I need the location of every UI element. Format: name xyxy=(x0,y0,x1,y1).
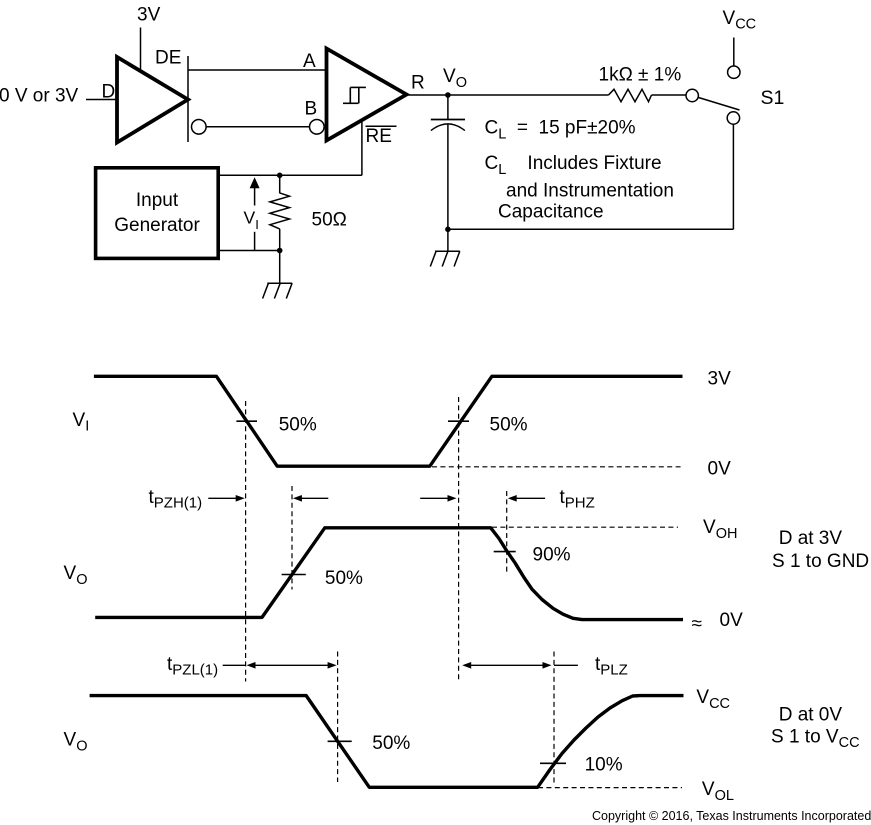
wire bottom rail xyxy=(448,228,734,230)
tick VO 90% xyxy=(494,551,516,553)
svg-text:≈: ≈ xyxy=(692,614,702,635)
wire resistor 50 bottom xyxy=(279,229,281,251)
dashed vertical D2 xyxy=(291,486,293,590)
label 1kohm xyxy=(599,65,682,86)
svg-text:S 1 to GND: S 1 to GND xyxy=(772,551,869,572)
tick VO bottom 50% xyxy=(328,740,352,742)
svg-text:50%: 50% xyxy=(325,568,363,589)
leader line tPZL xyxy=(223,664,246,666)
svg-text:90%: 90% xyxy=(533,545,571,566)
label VCC level xyxy=(696,687,730,712)
label D xyxy=(102,82,116,103)
label Input xyxy=(136,190,179,211)
label 3V level xyxy=(708,369,732,390)
VI arrow xyxy=(250,177,260,188)
wire R output rail xyxy=(407,94,609,96)
label RE overline xyxy=(366,125,397,127)
node RE dot xyxy=(277,173,283,179)
ground left xyxy=(263,283,293,298)
svg-text:Input: Input xyxy=(136,190,179,211)
label and Instrumentation xyxy=(506,181,674,202)
label S1 xyxy=(761,87,785,109)
svg-text:S1: S1 xyxy=(761,87,785,109)
label 0 V or 3V xyxy=(0,86,79,107)
driver inverting bubble xyxy=(192,120,207,135)
svg-text:1kΩ ± 1%: 1kΩ ± 1% xyxy=(599,65,682,86)
driver U1 xyxy=(117,57,188,143)
arrow into D3 right xyxy=(420,495,456,502)
node gen bottom dot xyxy=(277,248,283,254)
dashed vertical D1 xyxy=(245,401,247,682)
tick VI falling 50% xyxy=(236,420,257,422)
label 0V level xyxy=(708,459,732,480)
dashed vertical D3 xyxy=(458,397,460,680)
label 50ohm xyxy=(312,210,347,231)
label 50% falling xyxy=(279,414,317,435)
label D at 3V xyxy=(779,528,843,549)
svg-text:DE: DE xyxy=(155,48,181,69)
wire 3V to driver DE xyxy=(140,28,142,72)
svg-text:0 V or 3V: 0 V or 3V xyxy=(0,86,79,107)
wire to ground left xyxy=(279,251,281,284)
switch S1 blade xyxy=(699,98,740,111)
wire VCC xyxy=(733,38,735,66)
wire B xyxy=(206,126,309,128)
label tPLZ xyxy=(595,654,628,678)
wire resistor to switch xyxy=(652,94,687,96)
label S 1 to GND xyxy=(772,551,869,572)
waveform VO bottom xyxy=(90,696,684,788)
label tPZH(1) xyxy=(149,487,203,511)
label VOL xyxy=(702,779,734,804)
label 50% mid xyxy=(325,568,363,589)
svg-text:B: B xyxy=(305,99,318,120)
waveform VO mid xyxy=(95,528,683,620)
node VO dot xyxy=(445,92,451,98)
wire A xyxy=(188,69,325,71)
leader line tPLZ xyxy=(554,664,578,666)
svg-text:50Ω: 50Ω xyxy=(312,210,347,231)
receiver input bubble xyxy=(310,120,325,135)
label CL = 15 pF±20% xyxy=(485,118,636,143)
wire switch down xyxy=(732,124,734,229)
tick VO 50% xyxy=(282,574,306,576)
wire RE vertical xyxy=(361,121,363,176)
label R xyxy=(411,73,425,94)
label approx 0V xyxy=(692,610,744,634)
label 50% bottom xyxy=(372,733,410,754)
label copyright xyxy=(592,809,871,823)
svg-text:0V: 0V xyxy=(720,610,744,631)
waveform VI xyxy=(94,376,683,466)
label 50% rising xyxy=(490,414,528,435)
svg-text:Copyright © 2016, Texas Instru: Copyright © 2016, Texas Instruments Inco… xyxy=(592,809,871,823)
switch S1 bottom contact xyxy=(727,112,739,124)
svg-text:3V: 3V xyxy=(708,369,732,390)
svg-text:10%: 10% xyxy=(585,755,623,776)
svg-text:Generator: Generator xyxy=(114,215,200,236)
double arrow tPLZ xyxy=(462,662,551,669)
resistor R2 50 xyxy=(270,193,290,229)
svg-text:R: R xyxy=(411,73,425,94)
label Capacitance xyxy=(498,202,604,223)
label 3V supply xyxy=(137,5,161,26)
hysteresis symbol xyxy=(343,87,366,103)
wire generator bottom xyxy=(218,250,280,252)
label VCC xyxy=(723,8,757,33)
label RE xyxy=(366,126,392,147)
dashed VOH line xyxy=(492,526,678,528)
svg-text:D at 3V: D at 3V xyxy=(779,528,843,549)
label B xyxy=(305,99,318,120)
label DE xyxy=(155,48,181,69)
svg-text:Capacitance: Capacitance xyxy=(498,202,604,223)
label tPHZ xyxy=(560,487,595,511)
label CL Includes Fixture xyxy=(485,153,662,178)
wire driver output bus xyxy=(187,56,189,142)
label VI waveform xyxy=(73,410,90,435)
svg-text:50%: 50% xyxy=(490,414,528,435)
label D at 0V xyxy=(779,704,843,725)
arrow into D2 left xyxy=(293,495,328,502)
dashed vertical D5 xyxy=(337,652,339,783)
label VOH xyxy=(703,517,737,542)
label A xyxy=(303,51,316,72)
ground right xyxy=(430,251,460,266)
wire generator top xyxy=(218,174,362,176)
wire to ground right xyxy=(447,229,449,251)
svg-text:and Instrumentation: and Instrumentation xyxy=(506,181,674,202)
svg-text:0V: 0V xyxy=(708,459,732,480)
label 10% xyxy=(585,755,623,776)
dashed vertical D6 xyxy=(553,652,555,784)
label 90% xyxy=(533,545,571,566)
label VI schematic xyxy=(244,208,259,233)
arrow from D4 left xyxy=(508,495,545,502)
label tPZL(1) xyxy=(167,654,218,678)
double arrow tPZL xyxy=(247,662,337,669)
switch S1 pole contact xyxy=(686,89,698,101)
wire D input xyxy=(86,99,117,101)
receiver U2 xyxy=(327,49,407,141)
switch S1 top contact xyxy=(728,66,740,78)
label Generator xyxy=(114,215,200,236)
svg-text:A: A xyxy=(303,51,316,72)
resistor R1 1k xyxy=(609,89,652,101)
svg-text:3V: 3V xyxy=(137,5,161,26)
dashed 0V line xyxy=(432,466,684,468)
label VO bottom xyxy=(64,730,88,755)
label VO node xyxy=(443,66,467,91)
svg-text:D at 0V: D at 0V xyxy=(779,704,843,725)
tick VO bottom 10% xyxy=(540,762,566,764)
wire resistor 50 top xyxy=(279,175,281,193)
capacitor CL xyxy=(447,95,449,119)
svg-text:RE: RE xyxy=(366,126,392,147)
node bottom dot xyxy=(445,227,451,233)
svg-text:50%: 50% xyxy=(279,414,317,435)
tick VI rising 50% xyxy=(448,420,469,422)
label VO mid xyxy=(64,563,88,588)
input generator box xyxy=(96,168,219,259)
label S 1 to VCC xyxy=(771,726,860,751)
svg-text:50%: 50% xyxy=(372,733,410,754)
dashed vertical D4 xyxy=(506,491,508,574)
dashed VOL line xyxy=(538,787,682,789)
arrow tPZH right xyxy=(208,495,244,502)
